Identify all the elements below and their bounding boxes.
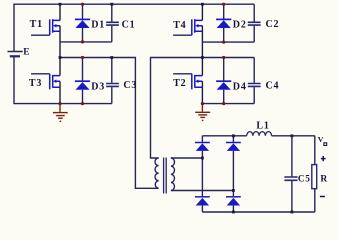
node T3 drain mid rail [59, 56, 62, 59]
transistor T4 [173, 19, 202, 35]
node bridge right input [232, 189, 235, 192]
svg-text:L1: L1 [256, 120, 269, 131]
bridge diode top-right [226, 143, 241, 151]
transformer secondary winding [171, 158, 175, 191]
bridge diode bottom-right [226, 197, 241, 206]
svg-text:R: R [320, 174, 328, 184]
wire C5 branch [291, 136, 293, 212]
node D4 top rail [222, 56, 225, 59]
label plus [321, 156, 326, 161]
wire left leg spine T3 source to bottom rail [59, 81, 61, 103]
wire C1 vertical [111, 4, 113, 42]
capacitor C3 [106, 84, 119, 87]
wire top rail (E+ bus) [14, 4, 254, 51]
diode D4 [216, 81, 231, 90]
node C5 top bus [291, 134, 294, 137]
node D2 bottom cell rail [222, 41, 225, 44]
wire C4 vertical [253, 58, 255, 104]
node T1 drain top rail [59, 3, 62, 6]
node D1 top rail [81, 3, 84, 6]
svg-text:T4: T4 [173, 20, 186, 31]
wire D2 vertical [223, 4, 225, 42]
wire left leg spine T1 source to T3 drain [59, 26, 61, 76]
bridge diode top-left [195, 143, 210, 151]
node C5 bottom bus [291, 211, 294, 214]
wire top output bus [202, 135, 314, 137]
svg-text:T1: T1 [30, 19, 43, 30]
wire right leg spine T2 source to bottom rail [201, 81, 203, 103]
wire bottom output bus [202, 211, 314, 213]
node D4 bottom rail [222, 102, 225, 105]
diode D3 [75, 81, 90, 90]
transistor T3 [31, 74, 60, 90]
wire D3 vertical [82, 58, 84, 104]
node T3 source ground junction [58, 102, 61, 105]
node bridge left input [201, 157, 204, 160]
node bridge right bottom bus [232, 211, 235, 214]
capacitor C2 [248, 22, 261, 25]
wire D1 vertical [82, 4, 84, 42]
node T2 source ground junction [201, 102, 204, 105]
svg-text:C5: C5 [298, 175, 311, 185]
wire right leg spine T4 drain [201, 4, 203, 20]
node C1 top rail [110, 3, 113, 6]
wire right leg spine T4 source to T2 drain [201, 26, 203, 76]
wire T2 cell top rail to transformer primary top [151, 58, 255, 159]
svg-text:V: V [318, 135, 324, 144]
resistor R [312, 165, 317, 189]
wire right upper cell bottom rail [202, 41, 254, 43]
transformer T primary winding [155, 158, 159, 188]
svg-text:T3: T3 [29, 78, 42, 89]
svg-text:C1: C1 [122, 20, 136, 31]
svg-text:D1: D1 [91, 20, 105, 31]
svg-text:D2: D2 [233, 20, 247, 31]
inductor L1 [247, 132, 272, 136]
wire transformer secondary bottom to bridge right node [171, 190, 234, 192]
svg-text:T2: T2 [173, 78, 186, 89]
label minus [320, 196, 325, 198]
wire transformer secondary top to bridge left node [171, 157, 203, 159]
node C3 top mid rail [110, 56, 113, 59]
node T4 drain top rail [201, 3, 204, 6]
wire T2 cell bottom rail [202, 103, 254, 105]
ground (left leg) [53, 104, 68, 121]
wire battery negative to bottom rail [14, 57, 112, 104]
capacitor C4 [248, 84, 261, 87]
svg-text:D3: D3 [91, 82, 105, 93]
svg-text:C2: C2 [266, 19, 280, 30]
node D3 top mid rail [81, 56, 84, 59]
diode D2 [216, 19, 231, 28]
wire bridge right rail [232, 136, 234, 212]
bridge diode bottom-left [195, 197, 210, 206]
node D2 top rail [222, 3, 225, 6]
wire left upper cell bottom rail [60, 41, 112, 43]
node D1 bottom cell rail [81, 40, 84, 43]
svg-text:C4: C4 [266, 80, 280, 91]
wire C2 vertical [253, 4, 255, 42]
wire D4 vertical [223, 58, 225, 104]
battery E [8, 52, 23, 57]
wire left leg spine T1 drain [59, 4, 61, 20]
node D3 bottom rail [81, 102, 84, 105]
wire C3 vertical [111, 58, 113, 104]
svg-text:E: E [23, 47, 30, 57]
capacitor C1 [106, 22, 119, 25]
node bridge right top bus [232, 134, 235, 137]
diode D1 [75, 19, 90, 28]
transistor T1 [31, 19, 60, 35]
node T2 drain rail [201, 56, 204, 59]
wire R branch [314, 136, 316, 212]
transformer core [164, 158, 167, 194]
svg-text:C3: C3 [123, 80, 137, 91]
ground (right leg) [195, 104, 210, 120]
wire mid rail to transformer primary bottom [60, 58, 159, 189]
wire bridge left rail [201, 136, 203, 212]
svg-text:D4: D4 [233, 82, 247, 93]
transistor T2 [173, 74, 202, 90]
capacitor C5 [284, 177, 297, 180]
